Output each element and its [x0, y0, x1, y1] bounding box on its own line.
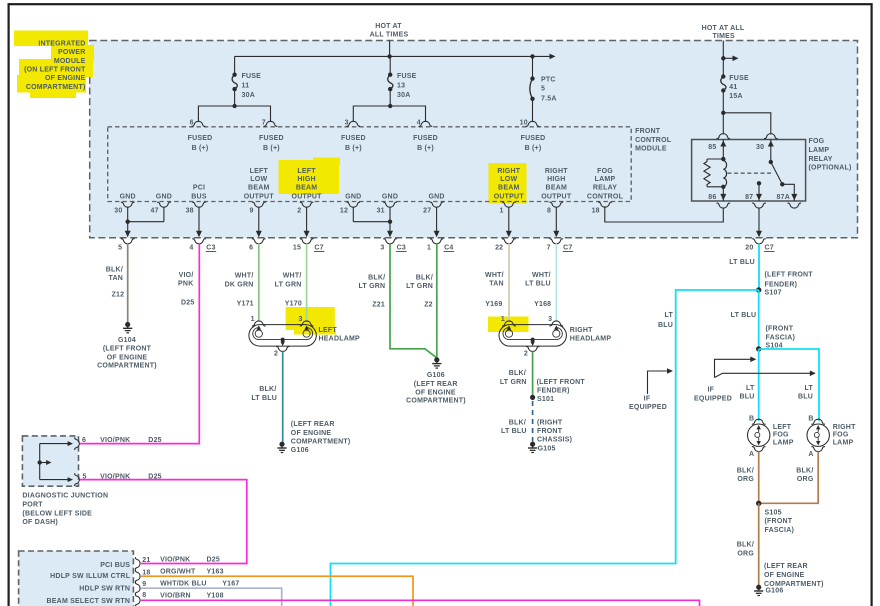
svg-text:FUSE: FUSE — [242, 73, 262, 80]
connector pin 7 C7 — [550, 239, 564, 244]
svg-text:DIAGNOSTIC JUNCTION: DIAGNOSTIC JUNCTION — [22, 493, 108, 500]
svg-text:VIO/: VIO/ — [179, 272, 194, 279]
svg-text:HEADLAMP: HEADLAMP — [319, 336, 361, 343]
svg-text:LT GRN: LT GRN — [406, 283, 433, 290]
svg-text:LT GRN: LT GRN — [358, 283, 385, 290]
FCM pin 4 connector — [419, 121, 433, 126]
svg-text:1: 1 — [251, 316, 255, 323]
svg-text:HDLP SW ILLUM CTRL: HDLP SW ILLUM CTRL — [50, 573, 131, 580]
svg-text:WHT/: WHT/ — [283, 273, 302, 280]
svg-text:LT BLU: LT BLU — [729, 259, 755, 266]
svg-text:COMPARTMENT): COMPARTMENT) — [97, 363, 157, 370]
svg-text:ALL TIMES: ALL TIMES — [370, 32, 409, 39]
front control module box — [108, 127, 632, 202]
wire VIO/BRN Y108 — [141, 600, 700, 606]
wire hot feed into IPM (left) — [389, 41, 391, 57]
svg-text:COMPARTMENT): COMPARTMENT) — [26, 84, 86, 91]
svg-text:BEAM: BEAM — [498, 185, 520, 192]
svg-text:(BELOW LEFT SIDE: (BELOW LEFT SIDE — [22, 510, 92, 517]
svg-text:IF: IF — [707, 387, 714, 394]
svg-text:18: 18 — [592, 208, 600, 215]
splice S104 — [756, 346, 761, 351]
svg-text:30: 30 — [114, 208, 122, 215]
svg-text:OUTPUT: OUTPUT — [292, 193, 323, 200]
svg-text:Z2: Z2 — [424, 302, 433, 309]
wire WHT/LT GRN Y170 to left headlamp 3 — [306, 243, 308, 321]
svg-text:(ON LEFT FRONT: (ON LEFT FRONT — [24, 67, 86, 74]
relay pin 30 connector — [764, 134, 778, 139]
splice S105 — [756, 501, 761, 506]
svg-text:CHASSIS): CHASSIS) — [537, 437, 572, 444]
svg-text:BLK/: BLK/ — [509, 420, 526, 427]
svg-text:21: 21 — [142, 557, 150, 564]
svg-text:OUTPUT: OUTPUT — [541, 193, 572, 200]
fog lamp relay box — [692, 140, 806, 202]
svg-text:Y168: Y168 — [534, 301, 551, 308]
ground G106 (left rear) — [279, 442, 284, 447]
wire right low beam 1 to connector 22 — [508, 207, 510, 232]
wire GND 27 to connector 1 — [436, 207, 438, 232]
svg-text:C4: C4 — [444, 244, 453, 251]
svg-text:FUSED: FUSED — [188, 135, 213, 142]
svg-text:HEADLAMP: HEADLAMP — [570, 336, 612, 343]
svg-text:BLK/: BLK/ — [737, 468, 754, 475]
switch pin 8 connector — [135, 594, 140, 606]
svg-text:MODULE: MODULE — [54, 58, 86, 65]
svg-text:OF ENGINE: OF ENGINE — [291, 430, 332, 437]
svg-text:POWER: POWER — [58, 49, 86, 56]
svg-text:PTC: PTC — [541, 77, 556, 84]
svg-text:1: 1 — [501, 316, 505, 323]
wire right high beam 8 to connector 7 — [555, 207, 557, 232]
FCM pin 10 connector — [526, 121, 540, 126]
svg-text:B (+): B (+) — [417, 145, 434, 152]
svg-text:3: 3 — [380, 244, 384, 251]
svg-text:ORG: ORG — [737, 551, 754, 558]
svg-text:FOG: FOG — [773, 431, 789, 438]
svg-text:HOT AT: HOT AT — [375, 23, 402, 30]
FCM pin 7 connector — [264, 121, 278, 126]
svg-text:LAMP: LAMP — [595, 176, 616, 183]
svg-text:FOG: FOG — [597, 168, 613, 175]
svg-text:3: 3 — [298, 316, 302, 323]
svg-text:7.5A: 7.5A — [541, 96, 557, 103]
svg-text:27: 27 — [423, 208, 431, 215]
svg-text:LEFT: LEFT — [319, 327, 338, 334]
svg-text:LT: LT — [746, 385, 755, 392]
svg-text:(LEFT REAR: (LEFT REAR — [291, 421, 335, 428]
svg-text:C3: C3 — [397, 244, 406, 251]
svg-text:4: 4 — [417, 119, 421, 126]
wire LT BLU S104 to right fog lamp — [759, 349, 819, 421]
svg-text:FUSED: FUSED — [341, 135, 366, 142]
svg-text:30A: 30A — [242, 92, 256, 99]
FCM pin 6 connector — [192, 121, 206, 126]
svg-text:BLU: BLU — [658, 322, 673, 329]
connector pin 4 C3 — [192, 239, 206, 244]
svg-text:GND: GND — [345, 193, 361, 200]
ground G106 (engine compartment rear) — [434, 357, 439, 362]
svg-text:TAN: TAN — [108, 275, 123, 282]
svg-text:RIGHT: RIGHT — [545, 168, 568, 175]
svg-text:FOG: FOG — [833, 431, 849, 438]
svg-text:VIO/PNK: VIO/PNK — [100, 437, 130, 444]
svg-text:WHT/: WHT/ — [532, 272, 551, 279]
svg-text:VIO/PNK: VIO/PNK — [160, 556, 190, 563]
svg-text:WHT/: WHT/ — [235, 273, 254, 280]
svg-text:BLK/: BLK/ — [259, 386, 276, 393]
svg-text:BLK/: BLK/ — [509, 370, 526, 377]
svg-text:41: 41 — [729, 84, 737, 91]
svg-text:(OPTIONAL): (OPTIONAL) — [809, 165, 852, 172]
svg-text:8: 8 — [142, 592, 146, 599]
connector pin 6 — [252, 239, 266, 244]
svg-text:Z12: Z12 — [112, 292, 125, 299]
left headlamp — [249, 325, 316, 347]
svg-text:2: 2 — [274, 350, 278, 357]
relay coil-switch dashed link — [728, 172, 773, 174]
svg-text:Y163: Y163 — [207, 569, 224, 576]
svg-text:B (+): B (+) — [192, 145, 209, 152]
svg-text:EQUIPPED: EQUIPPED — [694, 395, 732, 402]
svg-text:ORG: ORG — [797, 476, 814, 483]
fuse F11 30A — [234, 56, 236, 74]
svg-text:RIGHT: RIGHT — [570, 327, 593, 334]
wire relay 86 to FCM pin 18 — [605, 206, 724, 222]
svg-text:38: 38 — [186, 208, 194, 215]
wire fuse 13 to pins 3 and 4 — [353, 106, 425, 122]
svg-text:CONTROL: CONTROL — [587, 193, 624, 200]
svg-text:LT BLU: LT BLU — [501, 428, 527, 435]
svg-text:3: 3 — [345, 119, 349, 126]
svg-text:FUSED: FUSED — [413, 135, 438, 142]
wire B+ bus — [235, 55, 553, 57]
connector pin 15 C7 — [300, 239, 314, 244]
svg-text:INTEGRATED: INTEGRATED — [38, 41, 85, 48]
left fog lamp — [752, 419, 766, 424]
if equipped annotation right — [715, 359, 753, 377]
svg-text:GND: GND — [156, 193, 172, 200]
svg-text:(LEFT FRONT: (LEFT FRONT — [765, 271, 814, 278]
svg-text:C7: C7 — [563, 244, 572, 251]
svg-text:TAN: TAN — [489, 281, 504, 288]
svg-text:PCI: PCI — [193, 185, 205, 192]
svg-text:Z21: Z21 — [372, 302, 385, 309]
svg-text:8: 8 — [547, 208, 551, 215]
switch pin 21 connector — [135, 557, 140, 570]
svg-text:LOW: LOW — [250, 176, 267, 183]
svg-text:5: 5 — [118, 244, 122, 251]
connector pin 3 C3 — [383, 239, 397, 244]
svg-text:15A: 15A — [729, 93, 743, 100]
svg-text:FUSE: FUSE — [397, 73, 417, 80]
svg-text:87A: 87A — [776, 194, 790, 201]
wire WHT/DK GRN Y171 to left headlamp 1 — [258, 243, 260, 321]
wire PCI BUS 38 to connector 4 — [198, 207, 200, 232]
connector pin 22 — [502, 239, 516, 244]
wire left high beam 2 to connector 15 — [306, 207, 308, 232]
highlight right low beam output label — [489, 163, 527, 204]
svg-text:D25: D25 — [181, 300, 195, 307]
svg-text:4: 4 — [189, 244, 193, 251]
svg-text:BEAM SELECT SW RTN: BEAM SELECT SW RTN — [47, 598, 131, 605]
svg-text:BLU: BLU — [739, 393, 754, 400]
svg-text:2: 2 — [524, 350, 528, 357]
svg-text:IF: IF — [644, 396, 651, 403]
wire VIO/PNK D25 to DJP pin 6 — [80, 243, 199, 443]
svg-text:COMPARTMENT): COMPARTMENT) — [291, 439, 351, 446]
svg-text:BLK/: BLK/ — [368, 275, 385, 282]
svg-text:2: 2 — [297, 208, 301, 215]
wire fuse 11 to pins 6 and 7 — [198, 106, 270, 122]
svg-text:BLK/: BLK/ — [796, 468, 813, 475]
wire BLK/LT BLU left headlamp 2 to G106 — [282, 351, 284, 442]
svg-text:DK GRN: DK GRN — [225, 282, 254, 289]
svg-text:RELAY: RELAY — [809, 156, 833, 163]
wire LT BLU S107 to S104 — [758, 290, 760, 349]
wire BLK/LT GRN Z21 to ground G106 — [390, 243, 436, 357]
svg-text:Y171: Y171 — [237, 301, 254, 308]
svg-text:15: 15 — [293, 244, 301, 251]
svg-text:D25: D25 — [207, 556, 221, 563]
svg-text:LT GRN: LT GRN — [275, 282, 302, 289]
fuse F13 30A — [389, 56, 391, 74]
svg-text:LT: LT — [665, 312, 674, 319]
svg-text:30: 30 — [756, 144, 764, 151]
svg-text:PNK: PNK — [178, 281, 193, 288]
wire WHT/LT BLU Y168 to right headlamp 3 — [555, 243, 557, 321]
ground G106 (front) — [756, 585, 761, 590]
highlight left headlamp pin 3 — [286, 307, 336, 335]
svg-text:B (+): B (+) — [525, 145, 542, 152]
svg-text:OF ENGINE: OF ENGINE — [764, 572, 805, 579]
svg-text:7: 7 — [262, 119, 266, 126]
svg-text:30A: 30A — [397, 92, 411, 99]
svg-text:C3: C3 — [206, 244, 215, 251]
svg-text:13: 13 — [397, 83, 405, 90]
svg-text:FENDER): FENDER) — [537, 387, 570, 394]
wire BLK/LT GRN Z2 to ground G106 — [436, 243, 438, 357]
svg-text:LEFT: LEFT — [250, 168, 269, 175]
svg-text:85: 85 — [708, 144, 716, 151]
svg-text:47: 47 — [150, 208, 158, 215]
switch pin 18 connector — [135, 570, 140, 583]
wire BLK/ORG right fog to S105 — [759, 451, 819, 503]
svg-text:G105: G105 — [538, 446, 556, 453]
svg-text:(LEFT FRONT: (LEFT FRONT — [537, 379, 586, 386]
svg-text:87: 87 — [745, 194, 753, 201]
relay switch armature — [769, 160, 773, 164]
connector pin 1 C4 — [430, 239, 444, 244]
svg-text:10: 10 — [520, 119, 528, 126]
svg-text:(LEFT REAR: (LEFT REAR — [764, 563, 808, 570]
relay pin 86 wire — [722, 187, 724, 201]
wire BLK/LT BLU dashed S101 to G105 — [532, 401, 534, 442]
wire hot feed to fuse 41 — [722, 41, 724, 77]
svg-text:G106: G106 — [427, 372, 445, 379]
svg-text:12: 12 — [340, 208, 348, 215]
svg-text:FRONT: FRONT — [537, 428, 563, 435]
svg-text:3: 3 — [548, 316, 552, 323]
svg-text:Y169: Y169 — [485, 301, 502, 308]
svg-text:ORG: ORG — [737, 476, 754, 483]
svg-text:A: A — [808, 451, 813, 458]
wire relay 87 to connector 20 — [758, 208, 760, 232]
relay pin 86 connector — [717, 203, 731, 208]
svg-text:ORG/WHT: ORG/WHT — [160, 569, 196, 576]
svg-text:FASCIA): FASCIA) — [765, 527, 795, 534]
svg-text:LT: LT — [805, 385, 814, 392]
svg-text:OF ENGINE: OF ENGINE — [107, 354, 148, 361]
wire left low beam 9 to connector 6 — [258, 207, 260, 232]
FCM pin 3 connector — [347, 121, 361, 126]
svg-text:S101: S101 — [537, 396, 554, 403]
diagnostic junction port box — [22, 436, 78, 486]
svg-text:GND: GND — [120, 193, 136, 200]
PTC 5 7.5A — [532, 56, 534, 78]
fuse F41 15A — [721, 74, 725, 78]
svg-text:S107: S107 — [765, 290, 782, 297]
svg-text:BLK/: BLK/ — [737, 542, 754, 549]
svg-text:B: B — [808, 416, 813, 423]
svg-text:RIGHT: RIGHT — [833, 424, 856, 431]
wire GND 12/31 to connector 3 — [352, 207, 354, 222]
svg-text:S105: S105 — [765, 510, 782, 517]
svg-text:6: 6 — [82, 437, 86, 444]
svg-text:HIGH: HIGH — [297, 176, 315, 183]
svg-text:20: 20 — [745, 244, 753, 251]
svg-text:LT BLU: LT BLU — [251, 395, 277, 402]
wire BLK/ORG left fog to S105 — [758, 451, 760, 503]
svg-text:1: 1 — [427, 244, 431, 251]
svg-text:OUTPUT: OUTPUT — [244, 193, 275, 200]
svg-text:HOT AT ALL: HOT AT ALL — [702, 25, 745, 32]
svg-text:BEAM: BEAM — [248, 185, 270, 192]
wire WHT/DK BLU Y167 — [141, 588, 282, 606]
right headlamp — [499, 325, 566, 347]
svg-text:CONTROL: CONTROL — [635, 137, 672, 144]
svg-text:BEAM: BEAM — [296, 185, 318, 192]
ground G104 — [125, 322, 130, 327]
svg-text:RIGHT: RIGHT — [497, 168, 520, 175]
svg-text:LT BLU: LT BLU — [731, 312, 757, 319]
svg-text:FOG: FOG — [809, 138, 825, 145]
svg-text:G104: G104 — [118, 337, 136, 344]
relay pin 87A connector — [788, 203, 802, 208]
svg-text:31: 31 — [377, 208, 385, 215]
svg-text:6: 6 — [249, 244, 253, 251]
svg-text:FRONT: FRONT — [635, 128, 661, 135]
wire BLK/TAN Z12 to G104 — [127, 243, 129, 322]
wire BLK/LT GRN right headlamp 2 to S101 — [532, 351, 534, 397]
svg-text:OF ENGINE: OF ENGINE — [45, 75, 86, 82]
svg-text:G106: G106 — [766, 588, 784, 595]
svg-text:BLU: BLU — [798, 393, 813, 400]
relay contact 87 — [757, 181, 761, 185]
svg-text:(RIGHT: (RIGHT — [537, 420, 563, 427]
svg-text:FASCIA): FASCIA) — [766, 334, 796, 341]
svg-text:D25: D25 — [148, 437, 162, 444]
svg-text:MODULE: MODULE — [635, 146, 667, 153]
svg-text:VIO/BRN: VIO/BRN — [160, 592, 191, 599]
wire LT BLU S104 to left fog lamp — [758, 349, 760, 421]
svg-text:22: 22 — [495, 244, 503, 251]
right fog lamp — [811, 419, 825, 424]
svg-text:(FRONT: (FRONT — [765, 518, 793, 525]
svg-text:LAMP: LAMP — [833, 440, 854, 447]
svg-text:WHT/: WHT/ — [485, 272, 504, 279]
svg-text:(LEFT FRONT: (LEFT FRONT — [103, 346, 152, 353]
svg-text:9: 9 — [249, 208, 253, 215]
switch pin 9 connector — [135, 582, 140, 595]
svg-text:LT GRN: LT GRN — [500, 379, 527, 386]
wire fuse 41 to relay pin 30 — [723, 113, 771, 135]
connector pin 5 — [121, 239, 135, 244]
svg-text:OF ENGINE: OF ENGINE — [415, 389, 456, 396]
svg-text:LAMP: LAMP — [773, 440, 794, 447]
svg-text:B (+): B (+) — [263, 145, 280, 152]
headlamp switch box — [19, 551, 134, 606]
svg-text:PCI BUS: PCI BUS — [100, 562, 130, 569]
svg-text:LEFT: LEFT — [773, 424, 792, 431]
svg-text:LOW: LOW — [500, 176, 517, 183]
svg-text:5: 5 — [541, 86, 545, 93]
svg-text:HIGH: HIGH — [547, 176, 565, 183]
svg-text:B: B — [749, 416, 754, 423]
if equipped annotation left — [648, 371, 669, 394]
svg-text:GND: GND — [428, 193, 444, 200]
svg-text:6: 6 — [190, 119, 194, 126]
svg-text:7: 7 — [547, 244, 551, 251]
svg-text:COMPARTMENT): COMPARTMENT) — [406, 397, 466, 404]
svg-text:BLK/: BLK/ — [416, 275, 433, 282]
svg-text:WHT/DK BLU: WHT/DK BLU — [160, 580, 207, 587]
svg-text:TIMES: TIMES — [712, 33, 735, 40]
svg-text:PORT: PORT — [22, 501, 43, 508]
svg-text:BUS: BUS — [191, 193, 207, 200]
splice S101 — [530, 395, 535, 400]
svg-text:A: A — [749, 451, 754, 458]
svg-text:FUSED: FUSED — [521, 135, 546, 142]
svg-text:86: 86 — [708, 194, 716, 201]
svg-text:FENDER): FENDER) — [765, 281, 798, 288]
wire LT BLU connector 20 to S107 — [758, 243, 760, 290]
ground G105 — [530, 442, 535, 447]
svg-text:OUTPUT: OUTPUT — [494, 193, 525, 200]
svg-text:HDLP SW RTN: HDLP SW RTN — [79, 586, 130, 593]
svg-text:FUSED: FUSED — [259, 135, 284, 142]
svg-text:LEFT: LEFT — [297, 168, 316, 175]
svg-text:FUSE: FUSE — [729, 75, 749, 82]
wire ORG/WHT Y163 — [141, 576, 413, 606]
wire LT BLU branch to page bottom — [331, 290, 759, 606]
wire BLK/ORG S105 to G106 — [758, 503, 760, 585]
svg-text:9: 9 — [142, 581, 146, 588]
svg-text:(FRONT: (FRONT — [766, 326, 794, 333]
svg-text:Y167: Y167 — [222, 580, 239, 587]
svg-text:C7: C7 — [765, 244, 774, 251]
svg-text:OF DASH): OF DASH) — [22, 519, 58, 526]
DJP pin 6 connector — [75, 437, 80, 450]
svg-text:RELAY: RELAY — [593, 185, 617, 192]
svg-text:C7: C7 — [314, 244, 323, 251]
wire WHT/TAN Y169 to right headlamp 1 — [508, 243, 510, 321]
svg-text:1: 1 — [499, 208, 503, 215]
svg-text:G106: G106 — [291, 447, 309, 454]
relay pin 87 connector — [752, 203, 766, 208]
wire GND 30/47 to connector 5 — [127, 207, 129, 232]
svg-text:BLK/: BLK/ — [106, 267, 123, 274]
